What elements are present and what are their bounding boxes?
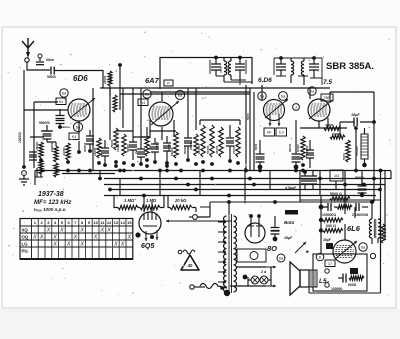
- band switch table: [20, 219, 133, 260]
- bubble V4: [308, 87, 316, 95]
- capacitor C18: [301, 170, 309, 190]
- svg-text:X: X: [127, 235, 132, 241]
- box 17: [325, 260, 335, 267]
- svg-text:X: X: [79, 242, 84, 248]
- transformer T2 secondary: [378, 219, 381, 238]
- ground G1: [19, 165, 29, 185]
- svg-text:500000: 500000: [39, 121, 50, 125]
- capacitor C13: [292, 138, 301, 169]
- resistor R14 50000: [206, 125, 214, 166]
- tube V2 6A7: [149, 102, 173, 126]
- svg-text:6a: 6a: [76, 125, 81, 130]
- label 100000 rotated: [18, 132, 22, 143]
- resistor R17 boxed: [355, 128, 368, 167]
- resistor R21 1M: [140, 205, 160, 209]
- note I max: [34, 207, 66, 212]
- IFT1 coil: [224, 58, 227, 83]
- label 25000j: [183, 146, 187, 154]
- label 18uF: [351, 113, 360, 117]
- box P1: [164, 80, 173, 86]
- arrow out 1: [266, 266, 276, 269]
- svg-text:70000: 70000: [226, 65, 230, 73]
- resistor R18: [301, 136, 305, 167]
- svg-text:50000: 50000: [126, 144, 130, 152]
- resistor R5: [54, 163, 58, 177]
- scan speckle noise: [8, 32, 391, 296]
- svg-text:10000: 10000: [116, 143, 120, 152]
- V4 leads: [310, 88, 328, 128]
- svg-text:100000: 100000: [305, 145, 309, 155]
- resistor R11 50000: [170, 132, 178, 166]
- box TBR: [321, 94, 333, 101]
- label 50000g: [126, 144, 130, 152]
- terminal circle right: [189, 215, 197, 220]
- capacitor C12: [256, 140, 265, 169]
- IFT1 frame: [210, 60, 252, 82]
- svg-text:X: X: [93, 235, 98, 241]
- IFT3 frame: [274, 58, 322, 76]
- transformer T2 primary: [369, 219, 372, 238]
- svg-text:50000: 50000: [206, 145, 210, 154]
- svg-text:100000: 100000: [18, 132, 22, 143]
- svg-text:Radiona: Radiona: [58, 125, 70, 129]
- svg-text:40000: 40000: [325, 123, 334, 127]
- dial lamp L2: [260, 276, 268, 284]
- svg-text:6.3: 6.3: [279, 131, 284, 135]
- box K1: [56, 98, 66, 105]
- svg-text:LG: LG: [22, 241, 29, 246]
- L52 terminal 1: [325, 269, 329, 273]
- hres top right: [324, 123, 345, 139]
- capacitor C5: [86, 130, 94, 153]
- label V7 6L6: [347, 224, 361, 233]
- wire grid row: [24, 102, 68, 110]
- label 25000c: [35, 141, 39, 150]
- label 100000b: [322, 213, 369, 217]
- svg-text:Bɑtɑ: Bɑtɑ: [284, 220, 294, 225]
- svg-text:6d: 6d: [62, 91, 66, 96]
- wire second vertical: [33, 102, 35, 168]
- bubble V1 top: [60, 89, 68, 97]
- capacitor C20: [358, 179, 367, 197]
- T1 taps: [218, 221, 226, 284]
- resistor R1 22500 vertical: [103, 71, 112, 86]
- wire bus v246: [245, 85, 247, 170]
- bus wire y189.5: [110, 189, 380, 191]
- label 5000c: [246, 113, 250, 120]
- svg-text:L5₂: L5₂: [319, 278, 330, 285]
- bubble V2 right: [175, 90, 184, 99]
- wire C1 to V1 grid: [54, 70, 103, 72]
- capacitor C21: [323, 203, 337, 211]
- resistor R23 600: [348, 276, 364, 287]
- svg-text:MF= 123 kHz: MF= 123 kHz: [34, 199, 72, 206]
- label 500: [355, 176, 364, 180]
- resistor R9 25000: [110, 128, 118, 164]
- wire y92 right: [330, 91, 374, 93]
- wire osc join: [133, 131, 176, 137]
- T2 leads: [370, 200, 378, 244]
- svg-text:X: X: [73, 235, 78, 241]
- IFT4 capacitor: [309, 56, 319, 78]
- note 1937-38: [38, 191, 64, 198]
- capacitor C14 18uF: [340, 118, 376, 127]
- label V2 6A7: [145, 76, 160, 85]
- wire v110: [109, 86, 111, 140]
- svg-text:2µF: 2µF: [148, 145, 152, 150]
- label 2uF: [134, 149, 138, 154]
- bubble 6a right: [277, 254, 285, 262]
- wire left bus down: [23, 70, 25, 167]
- svg-text:18µF: 18µF: [284, 236, 293, 240]
- resistor R20 1M: [118, 205, 138, 209]
- trimmer C0: [36, 54, 54, 65]
- svg-text:10000: 10000: [296, 144, 300, 152]
- wire v374: [373, 92, 375, 202]
- wire v92: [92, 88, 94, 170]
- svg-text:1Ω: 1Ω: [334, 173, 339, 178]
- grid bus y88: [100, 87, 330, 89]
- box K3: [138, 99, 148, 106]
- svg-text:HF: HF: [267, 131, 272, 135]
- speaker coil: [309, 270, 317, 287]
- resistor R10: [122, 134, 126, 165]
- title SBR 385A: [326, 61, 374, 72]
- transformer T2 core: [374, 219, 376, 238]
- capacitor C8: [137, 142, 145, 166]
- label 7.5: [323, 79, 332, 86]
- speaker frame: [300, 270, 309, 287]
- wire v120: [119, 70, 121, 110]
- svg-text:X: X: [32, 235, 37, 241]
- svg-text:20 kΩ: 20 kΩ: [174, 198, 187, 203]
- bubble V3 right: [279, 92, 288, 101]
- svg-text:50000: 50000: [47, 75, 56, 79]
- svg-text:X: X: [39, 235, 44, 241]
- bubble V2 left: [143, 90, 151, 98]
- label 100000d: [50, 142, 54, 152]
- svg-text:50000: 50000: [155, 141, 159, 150]
- label 50000b: [155, 141, 159, 150]
- label V3 6D6: [258, 77, 272, 84]
- capacitor C23: [163, 136, 171, 165]
- label L52: [319, 278, 330, 285]
- svg-text:XQ: XQ: [22, 227, 29, 232]
- bus stubs: [110, 88, 196, 142]
- svg-text:PU.: PU.: [22, 248, 29, 253]
- svg-text:6a: 6a: [178, 93, 183, 98]
- IFT1 capacitor: [211, 56, 221, 76]
- svg-text:12: 12: [107, 220, 112, 225]
- R20 bracket: [114, 196, 164, 208]
- ground bars left: [35, 168, 43, 177]
- svg-text:1937-38: 1937-38: [38, 191, 64, 198]
- IFT4 coil: [301, 58, 304, 85]
- row y207 left dot: [319, 205, 324, 210]
- wire cluster joins: [30, 131, 56, 146]
- label 4.5uF: [284, 186, 297, 190]
- svg-text:1 MΩ: 1 MΩ: [124, 198, 135, 203]
- svg-text:X: X: [100, 228, 105, 234]
- T1 bottom node: [224, 290, 230, 296]
- resistor R7 10000: [93, 138, 101, 165]
- label 1M 1M: [124, 198, 157, 203]
- arrow to L52: [295, 242, 317, 253]
- box K2: [69, 133, 79, 140]
- resistor R3: [54, 146, 58, 162]
- V1 anode arrow: [70, 98, 95, 118]
- V2 anode arrow: [151, 101, 179, 125]
- bubble V1 bottom: [73, 122, 82, 131]
- svg-text:6A7: 6A7: [145, 76, 160, 85]
- lamp joins: [248, 267, 271, 286]
- svg-text:100000: 100000: [331, 287, 342, 291]
- capacitor C1 50000: [47, 67, 56, 80]
- capacitor C6: [101, 140, 109, 167]
- tube V3 6D6: [264, 100, 285, 121]
- svg-text:10000: 10000: [62, 147, 66, 155]
- resistor R24 5000: [330, 197, 350, 201]
- bus wire y202: [200, 202, 370, 207]
- tube V7 6L6: [333, 240, 356, 263]
- svg-text:15: 15: [127, 220, 132, 225]
- V3 below boxes: [264, 128, 287, 136]
- dashed vertical: [244, 168, 246, 205]
- resistor R15 30000: [215, 127, 223, 157]
- bus wire y195.5: [104, 195, 376, 197]
- IFT2 capacitor: [235, 56, 245, 80]
- wire v262 v296: [262, 85, 296, 138]
- V4 anode arrow: [309, 100, 332, 119]
- box 1ohm: [330, 170, 343, 190]
- wire bus v254: [253, 92, 255, 170]
- svg-text:600Ω: 600Ω: [348, 283, 357, 287]
- svg-text:5000: 5000: [254, 143, 258, 150]
- label 10000i: [167, 144, 171, 152]
- svg-text:SBR 385A.: SBR 385A.: [326, 61, 374, 72]
- wire v345 v355: [345, 200, 355, 240]
- arrow out 2: [266, 285, 276, 288]
- svg-text:500Ω: 500Ω: [355, 176, 364, 180]
- label 30uF: [323, 238, 332, 242]
- label 4459: [219, 67, 223, 73]
- label 2uFh: [148, 145, 152, 150]
- bus wire y184.5: [104, 184, 385, 186]
- resistor R22 20k: [168, 196, 196, 212]
- label 10000l: [296, 144, 300, 152]
- transformer T1 secondary: [234, 216, 237, 292]
- lamp wires: [230, 267, 266, 286]
- svg-text:14: 14: [120, 220, 125, 225]
- resistor R8 70000: [109, 75, 117, 112]
- capacitor C4: [29, 152, 37, 160]
- antenna A: [22, 38, 34, 58]
- tube V1 6D6: [68, 99, 90, 121]
- svg-text:25000: 25000: [189, 141, 193, 150]
- svg-text:X: X: [120, 242, 125, 248]
- svg-text:10000: 10000: [93, 147, 97, 156]
- svg-text:2 a: 2 a: [260, 270, 266, 274]
- antenna terminal: [25, 58, 29, 62]
- shield box 6A7: [160, 58, 252, 90]
- label 10000e: [62, 147, 66, 155]
- capacitor C10: [184, 130, 192, 162]
- link wires: [116, 131, 210, 217]
- resistor R2: [39, 142, 43, 162]
- capacitor C7: [129, 136, 137, 160]
- label V1 6D6: [73, 74, 88, 83]
- tube V5 6Q5: [139, 212, 161, 234]
- svg-text:X: X: [59, 228, 64, 234]
- V7 anode arrow: [335, 241, 357, 259]
- V2 leads: [150, 92, 174, 140]
- resistor R30: [145, 127, 149, 162]
- svg-text:600 Ω: 600 Ω: [326, 224, 336, 228]
- box V7: [326, 243, 333, 249]
- label 300000f: [83, 142, 87, 152]
- capacitor C15: [306, 140, 314, 168]
- svg-text:8O: 8O: [267, 244, 277, 253]
- wire v385: [384, 185, 386, 241]
- V5 beam arrow: [166, 220, 232, 223]
- V5 cathode terminal: [135, 230, 158, 241]
- svg-text:25000: 25000: [183, 146, 187, 154]
- svg-text:25000: 25000: [110, 139, 114, 148]
- bubble V7 left: [316, 253, 324, 261]
- resistor R13 100000: [197, 125, 205, 164]
- svg-text:99000: 99000: [288, 143, 292, 152]
- resistor R28: [381, 224, 385, 243]
- capacitor C9: [151, 138, 159, 164]
- svg-text:X: X: [66, 242, 71, 248]
- svg-text:6a: 6a: [281, 94, 286, 99]
- capacitor C16: [271, 216, 280, 241]
- svg-text:6a: 6a: [361, 245, 366, 250]
- svg-text:70000: 70000: [109, 75, 113, 84]
- svg-text:X: X: [52, 242, 57, 248]
- svg-text:X: X: [46, 228, 51, 234]
- label 100000m: [305, 145, 309, 155]
- svg-text:6.D6: 6.D6: [258, 77, 272, 84]
- bus tie verticals: [35, 171, 391, 203]
- label 20k: [174, 198, 187, 203]
- label 10000a: [116, 143, 120, 152]
- resistor R25: [337, 205, 352, 209]
- svg-text:J: J: [295, 105, 297, 110]
- IFT4 frame: [298, 58, 322, 85]
- svg-text:K4: K4: [59, 100, 63, 104]
- svg-text:100000: 100000: [355, 146, 359, 156]
- wire y200 right: [300, 199, 380, 201]
- svg-text:5000 Ω: 5000 Ω: [330, 192, 342, 196]
- capacitor C22: [356, 203, 368, 211]
- svg-text:17: 17: [328, 262, 332, 266]
- box h: [350, 268, 358, 274]
- wire bottom right: [309, 287, 381, 293]
- capacitor C17: [338, 274, 346, 283]
- svg-text:10000: 10000: [167, 144, 171, 152]
- svg-text:X: X: [79, 228, 84, 234]
- wire bus v250: [249, 88, 251, 170]
- bubble V7 right: [359, 243, 367, 251]
- note MF 123kHz: [34, 199, 72, 206]
- IFT3 coil: [291, 58, 294, 83]
- resistor R4: [39, 160, 43, 174]
- dial lamp L1: [251, 276, 259, 284]
- svg-text:20000: 20000: [232, 145, 236, 154]
- label 5000k: [254, 143, 258, 150]
- resistor R27 600: [319, 228, 343, 232]
- transformer T1 core: [229, 214, 232, 293]
- IFT2 coil: [228, 58, 231, 81]
- label 500000: [39, 121, 50, 125]
- svg-text:X: X: [106, 228, 111, 234]
- AC squiggle small: [178, 250, 195, 254]
- label 5000a: [330, 192, 342, 196]
- svg-text:18µF: 18µF: [351, 113, 360, 117]
- svg-text:6L6: 6L6: [347, 224, 361, 233]
- label beta: [284, 210, 298, 225]
- svg-text:10: 10: [93, 220, 98, 225]
- svg-text:OQ: OQ: [22, 234, 29, 239]
- V3 anode arrow: [265, 99, 288, 118]
- svg-text:30000: 30000: [215, 145, 219, 154]
- svg-text:Iₘₐₓ 1000 n.p.v.: Iₘₐₓ 1000 n.p.v.: [34, 207, 66, 212]
- label 18uF2: [284, 236, 293, 240]
- bus wire y178.5: [104, 178, 391, 180]
- svg-text:4,5µµF: 4,5µµF: [284, 186, 297, 190]
- svg-text:6Q5: 6Q5: [141, 243, 154, 250]
- svg-text:60cm: 60cm: [46, 58, 54, 62]
- svg-text:6a: 6a: [279, 256, 284, 261]
- tube V4 75: [308, 99, 330, 121]
- svg-text:X: X: [113, 242, 118, 248]
- resistor R26 200k: [319, 218, 343, 222]
- svg-text:40: 40: [187, 263, 193, 268]
- svg-text:7.5: 7.5: [323, 79, 332, 86]
- wire v330 340: [330, 92, 340, 136]
- bus wire y170.5: [35, 171, 391, 174]
- resistor R16 20000: [232, 127, 240, 165]
- svg-text:5000: 5000: [342, 153, 346, 160]
- svg-text:K4: K4: [72, 135, 76, 139]
- svg-text:6a: 6a: [145, 92, 150, 97]
- jack box: [237, 249, 266, 262]
- jack J1: [293, 104, 300, 111]
- V3 lead arrows: [269, 114, 281, 126]
- svg-text:2µF: 2µF: [134, 149, 138, 154]
- T1 top lead: [227, 200, 231, 214]
- label 99000: [288, 143, 292, 152]
- bank top wire: [200, 120, 240, 125]
- wire antenna to C1: [27, 62, 50, 70]
- IFT2 frame: [231, 60, 246, 85]
- bubble far right: [370, 253, 375, 258]
- V5 grid leads: [144, 196, 152, 212]
- V1 cathode parts: [77, 121, 81, 154]
- label 100000 L52: [331, 287, 342, 291]
- label 25000b: [189, 141, 193, 150]
- wire v321: [320, 196, 322, 253]
- label 600b: [326, 224, 336, 228]
- svg-text:25000: 25000: [35, 141, 39, 150]
- svg-text:30µF: 30µF: [323, 238, 332, 242]
- wire v356: [354, 126, 358, 170]
- capacitor C11: [226, 125, 234, 163]
- svg-text:300000: 300000: [83, 142, 87, 152]
- svg-text:13: 13: [114, 220, 119, 225]
- resistor R6: [66, 143, 70, 164]
